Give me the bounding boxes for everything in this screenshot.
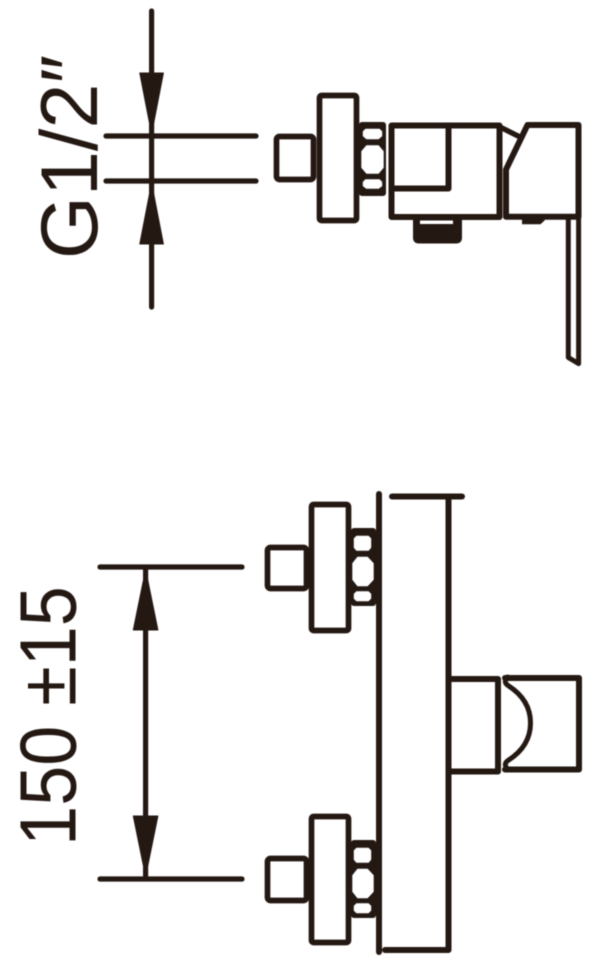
svg-text:G1/2″: G1/2″ [25, 55, 115, 259]
svg-text:150 ±15: 150 ±15 [4, 586, 93, 846]
